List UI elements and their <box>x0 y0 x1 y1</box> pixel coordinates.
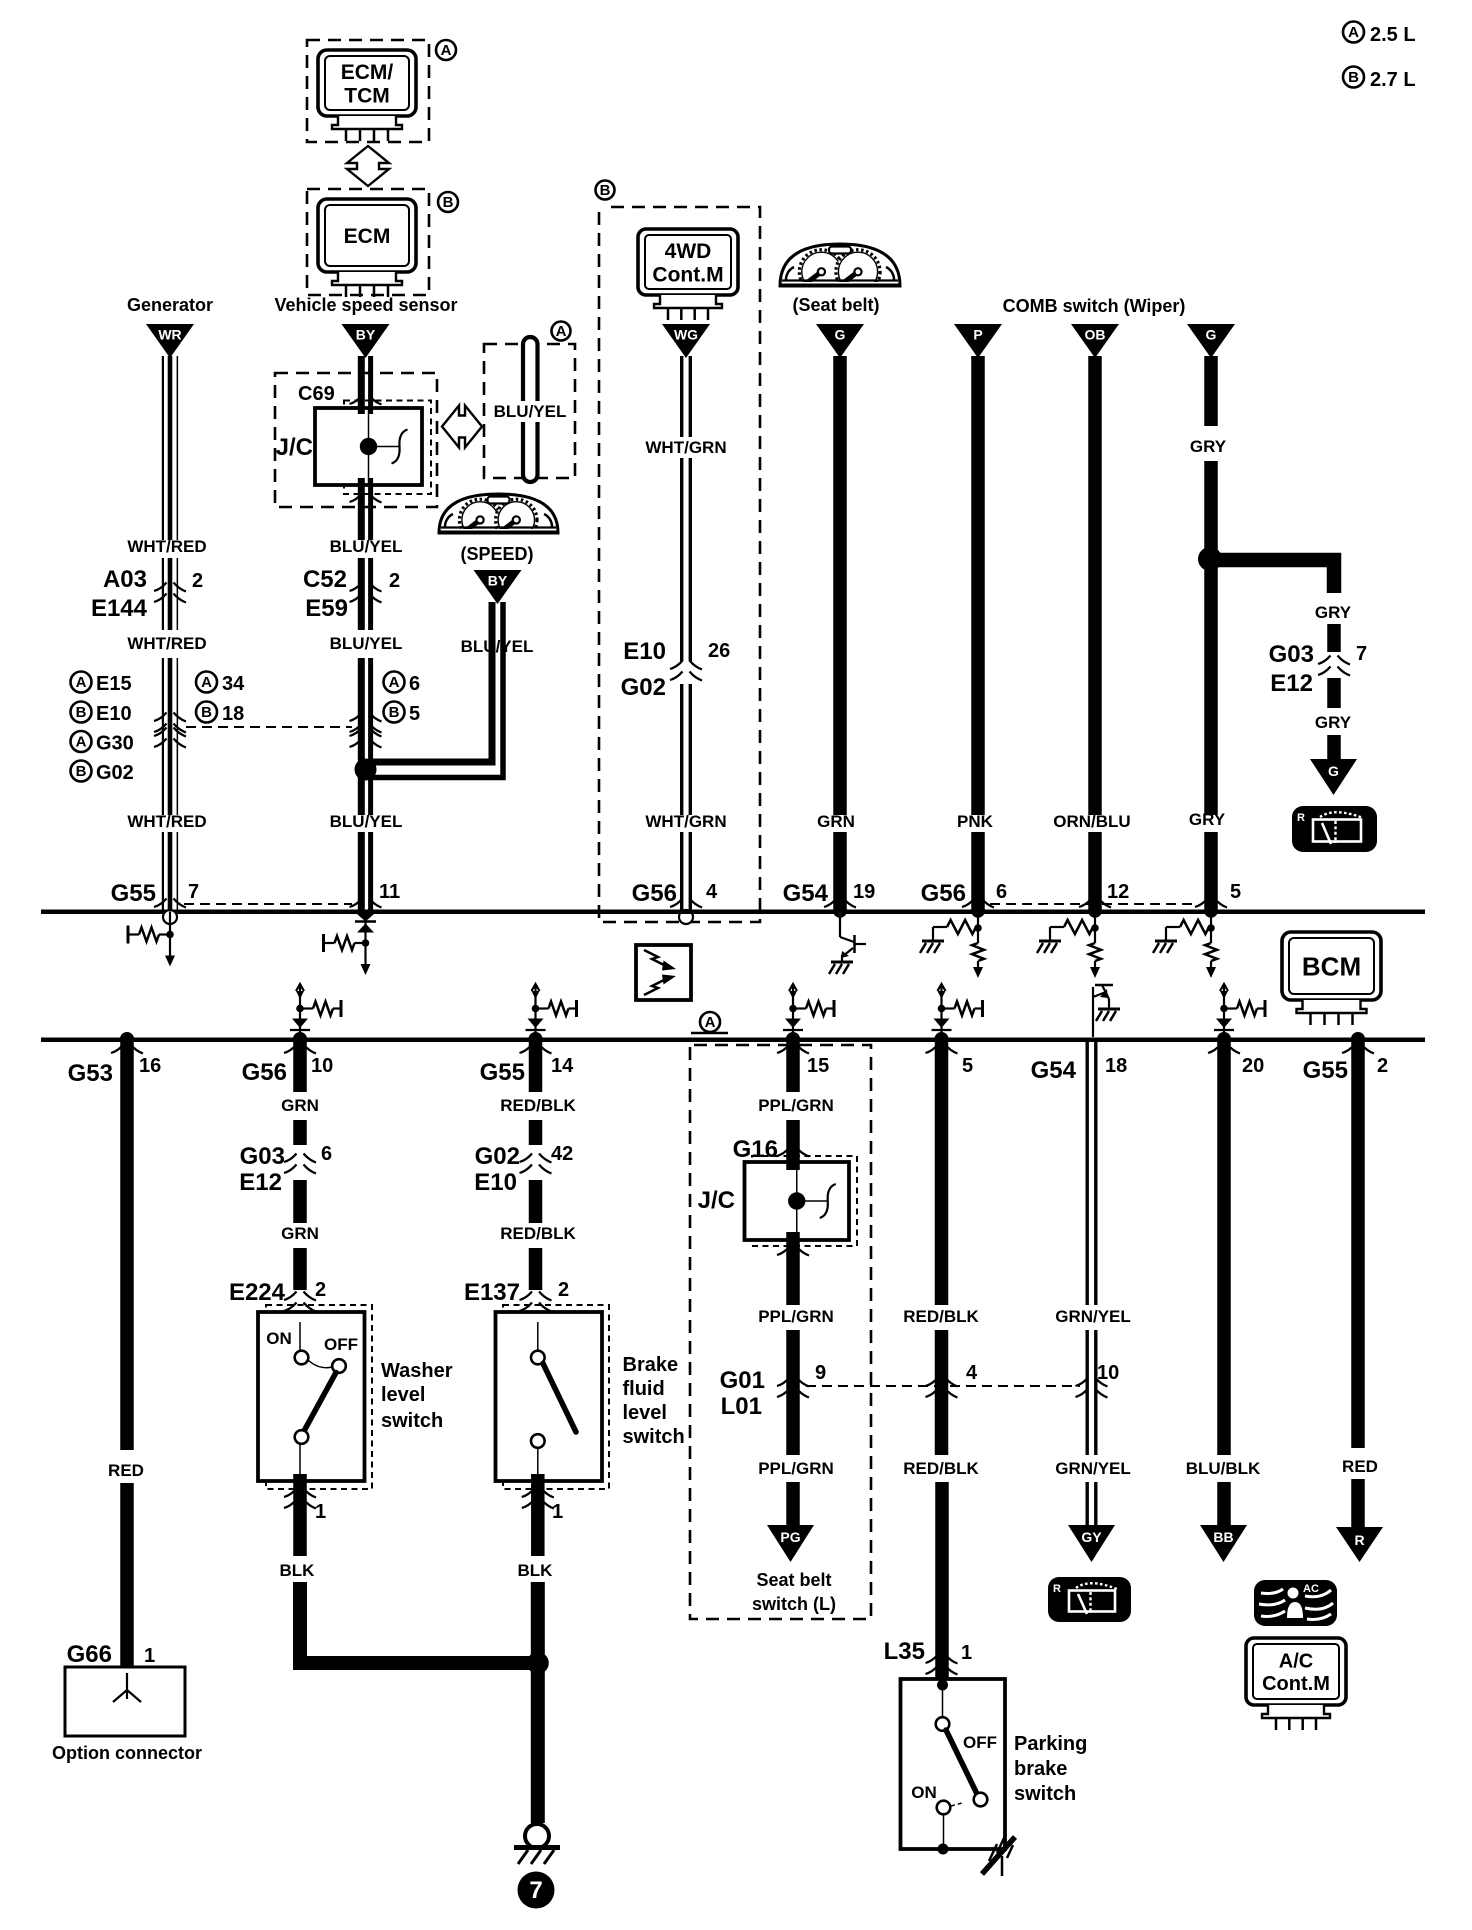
switch contact lower <box>295 1430 309 1444</box>
svg-text:RED/BLK: RED/BLK <box>903 1459 979 1478</box>
ground bus line 2 <box>41 1038 1425 1043</box>
svg-text:BLK: BLK <box>518 1561 554 1580</box>
brake fluid level switch box <box>496 1312 603 1481</box>
junction dot GRY branch <box>1198 547 1222 571</box>
svg-text:GRY: GRY <box>1189 810 1226 829</box>
svg-text:ON: ON <box>911 1783 937 1802</box>
connector circle at bus <box>679 910 693 924</box>
svg-text:E12: E12 <box>1270 670 1313 697</box>
source arrow G (COMB sw) <box>1187 324 1235 358</box>
svg-text:BLU/YEL: BLU/YEL <box>330 537 403 556</box>
svg-text:14: 14 <box>551 1055 574 1077</box>
seat belt warning cluster icon <box>780 244 900 294</box>
svg-text:A03: A03 <box>103 566 147 593</box>
wire GRN/YEL double thin <box>1086 1041 1089 1305</box>
switch contact bottom <box>531 1434 545 1448</box>
svg-text:G55: G55 <box>1303 1057 1348 1084</box>
ECM dashed box (2.7L) <box>307 189 429 295</box>
svg-text:Option connector: Option connector <box>52 1743 202 1763</box>
dashed link 9-4-10 <box>806 1385 1080 1387</box>
svg-text:WHT/GRN: WHT/GRN <box>645 438 726 457</box>
svg-text:G54: G54 <box>783 880 829 907</box>
svg-text:level: level <box>623 1402 667 1424</box>
svg-text:Vehicle speed sensor: Vehicle speed sensor <box>274 295 457 315</box>
diode/resistor above 5 <box>932 984 983 1037</box>
wire GRN <box>293 1041 307 1092</box>
svg-text:PPL/GRN: PPL/GRN <box>758 1096 834 1115</box>
junction dot 15 on bus 2 <box>786 1032 800 1046</box>
BCM pedestal <box>1297 1000 1367 1025</box>
svg-text:A: A <box>556 323 567 340</box>
svg-text:7: 7 <box>188 881 199 903</box>
wire BLU/BLK <box>1217 1041 1231 1455</box>
junction dot BLK <box>527 1652 549 1674</box>
svg-text:1: 1 <box>315 1501 326 1523</box>
svg-text:RED/BLK: RED/BLK <box>500 1096 576 1115</box>
source arrow WG (4WD) <box>662 324 710 358</box>
connector C69 exit <box>350 494 363 503</box>
svg-text:15: 15 <box>807 1055 829 1077</box>
svg-text:E10: E10 <box>474 1169 517 1196</box>
svg-text:GRN: GRN <box>817 812 855 831</box>
circled B <box>596 181 615 200</box>
svg-text:Washer: Washer <box>381 1360 453 1382</box>
svg-text:1: 1 <box>961 1642 972 1664</box>
connector G03/E12 pin 6 on GRN <box>284 1154 316 1174</box>
svg-text:G03: G03 <box>240 1143 285 1170</box>
svg-text:5: 5 <box>409 703 420 725</box>
svg-text:18: 18 <box>1105 1055 1127 1077</box>
parking brake switch box <box>901 1679 1006 1855</box>
svg-text:ORN/BLU: ORN/BLU <box>1053 812 1130 831</box>
svg-text:G56: G56 <box>632 880 677 907</box>
switch contact OFF <box>332 1359 346 1373</box>
svg-text:G53: G53 <box>68 1060 113 1087</box>
connector list E15/E10/G30/G02 <box>71 672 92 693</box>
circled A (ECM/TCM) <box>436 40 456 60</box>
svg-text:(SPEED): (SPEED) <box>460 544 533 564</box>
svg-text:Seat belt: Seat belt <box>756 1570 831 1590</box>
wire GRY solid with label gap <box>1204 356 1218 426</box>
destination arrow BB <box>1200 1525 1247 1562</box>
connector pin 4 on RED/BLK <box>926 1378 958 1398</box>
svg-text:PG: PG <box>780 1529 800 1545</box>
connector L35 pin 1 <box>926 1655 958 1675</box>
svg-text:A/C: A/C <box>1279 1651 1313 1673</box>
wire PNK solid <box>971 356 985 815</box>
bidirectional arrow between ECM/TCM and ECM <box>347 146 389 186</box>
svg-text:WHT/RED: WHT/RED <box>127 634 206 653</box>
connector G30/G02 on WHT/RED <box>154 728 186 748</box>
wire RED <box>120 1041 134 1450</box>
washer level switch box <box>258 1312 365 1481</box>
source arrow BY (SPEED) <box>474 570 522 604</box>
connector C52/E59 pin 2 on BLU/YEL <box>350 583 382 603</box>
junction dot G56-10 on bus 2 <box>293 1032 307 1046</box>
svg-text:BLU/BLK: BLU/BLK <box>1186 1459 1261 1478</box>
bus2 joint 20 <box>1208 1045 1221 1054</box>
svg-text:J/C: J/C <box>276 434 313 461</box>
washer level switch box (B dashed) <box>266 1305 372 1489</box>
svg-text:4WD: 4WD <box>665 240 712 263</box>
BLU/YEL wire capsule <box>523 337 538 482</box>
dashed link G55-7 to 11 <box>184 903 352 905</box>
diode/resistor above 15 <box>783 984 834 1037</box>
svg-text:GRN: GRN <box>281 1096 319 1115</box>
bus joint G56-6 <box>962 899 975 908</box>
svg-text:G55: G55 <box>111 880 156 907</box>
switch blade <box>304 1373 336 1432</box>
4WD control module <box>638 229 738 295</box>
svg-text:(Seat belt): (Seat belt) <box>792 295 879 315</box>
bus2 joint G53-16 <box>111 1045 124 1054</box>
svg-text:level: level <box>381 1384 425 1406</box>
svg-text:PPL/GRN: PPL/GRN <box>758 1459 834 1478</box>
destination arrow R <box>1336 1527 1383 1562</box>
connector A6/B5 lower on BLU/YEL <box>350 728 382 748</box>
wire GRN solid <box>833 356 847 815</box>
svg-text:WHT/RED: WHT/RED <box>127 812 206 831</box>
svg-text:BLU/YEL: BLU/YEL <box>330 812 403 831</box>
resistor network below 12 <box>1037 911 1101 978</box>
wire ORN/BLU solid <box>1088 356 1102 815</box>
svg-text:brake: brake <box>1014 1758 1067 1780</box>
bus joint 12 <box>1079 899 1092 908</box>
svg-text:A: A <box>441 42 452 59</box>
connector G16 exit <box>777 1247 790 1256</box>
diode/resistor above G55-14 <box>526 984 577 1037</box>
destination arrow PG <box>767 1525 814 1562</box>
svg-text:6: 6 <box>996 881 1007 903</box>
svg-text:4: 4 <box>706 881 718 903</box>
svg-text:ECM/: ECM/ <box>341 61 394 84</box>
svg-text:6: 6 <box>409 673 420 695</box>
diode/resistor above G56-10 <box>290 984 341 1037</box>
svg-text:A: A <box>1348 24 1359 41</box>
svg-text:AC: AC <box>1303 1583 1319 1595</box>
rear wiper indicator icon <box>1292 806 1377 852</box>
svg-text:TCM: TCM <box>344 84 390 107</box>
svg-text:2.5 L: 2.5 L <box>1370 24 1416 46</box>
svg-text:10: 10 <box>311 1055 333 1077</box>
wire BLU/YEL (double) <box>358 356 365 408</box>
svg-text:BLU/YEL: BLU/YEL <box>461 637 534 656</box>
svg-text:switch: switch <box>623 1426 685 1448</box>
junction dot speed branch <box>355 759 377 781</box>
wire RED/BLK <box>529 1041 543 1092</box>
junction dot G55-14 on bus 2 <box>529 1032 543 1046</box>
junction connector G16 J/C <box>745 1162 850 1240</box>
svg-text:E144: E144 <box>91 595 148 622</box>
circled A <box>552 322 571 341</box>
wire BLK elbow to junction <box>300 1582 530 1663</box>
legend A 2.5L <box>1343 22 1364 43</box>
svg-text:E10: E10 <box>96 703 132 725</box>
junction connector C69 J/C <box>315 408 422 485</box>
junction dot 20 on bus 2 <box>1217 1032 1231 1046</box>
connector E10/G02 pin 26 on WHT/GRN <box>670 661 702 681</box>
bus2 joint G55-14 <box>520 1045 533 1054</box>
bus2 joint 5 <box>926 1045 939 1054</box>
svg-text:Brake: Brake <box>623 1354 679 1376</box>
svg-text:B: B <box>76 763 87 780</box>
svg-text:OFF: OFF <box>963 1733 997 1752</box>
connector G16 entry <box>777 1148 790 1157</box>
svg-text:G66: G66 <box>67 1641 112 1668</box>
svg-text:B: B <box>201 704 212 721</box>
source arrow BY (VSS) <box>342 324 390 358</box>
svg-text:2: 2 <box>192 570 203 592</box>
svg-text:G02: G02 <box>96 762 134 784</box>
switch contact blade end <box>974 1793 988 1807</box>
connector circle G55-7 <box>163 910 177 924</box>
4WD Cont.M pedestal <box>654 295 722 320</box>
svg-text:GRY: GRY <box>1315 713 1352 732</box>
ground reference 7 <box>518 1872 555 1909</box>
svg-text:Generator: Generator <box>127 295 213 315</box>
svg-text:G: G <box>835 327 846 343</box>
svg-text:B: B <box>389 704 400 721</box>
svg-text:L35: L35 <box>884 1638 925 1665</box>
svg-text:BLK: BLK <box>280 1561 316 1580</box>
svg-text:COMB switch (Wiper): COMB switch (Wiper) <box>1003 296 1186 316</box>
svg-text:7: 7 <box>529 1877 542 1904</box>
svg-text:2: 2 <box>389 570 400 592</box>
destination arrow GY <box>1068 1525 1115 1562</box>
bus joint G54-19 <box>824 899 837 908</box>
pins A6/B5 <box>384 672 405 693</box>
svg-text:26: 26 <box>708 640 730 662</box>
bidirectional arrow C69/capsule <box>442 406 482 448</box>
svg-text:Parking: Parking <box>1014 1733 1087 1755</box>
svg-text:L01: L01 <box>721 1393 762 1420</box>
svg-text:B: B <box>1348 69 1359 86</box>
svg-text:B: B <box>600 182 611 199</box>
svg-text:switch: switch <box>381 1410 443 1432</box>
brake fluid level switch box (B dashed) <box>503 1305 609 1489</box>
switch blade <box>543 1364 576 1433</box>
source arrow P (COMB sw) <box>954 324 1002 358</box>
ECM pedestal pins <box>332 272 402 297</box>
A/C Cont.M pedestal <box>1262 1705 1330 1730</box>
svg-text:6: 6 <box>321 1143 332 1165</box>
svg-text:G: G <box>1328 763 1339 779</box>
svg-text:RED/BLK: RED/BLK <box>903 1307 979 1326</box>
svg-text:E137: E137 <box>464 1279 520 1306</box>
svg-text:G02: G02 <box>621 674 666 701</box>
svg-text:C52: C52 <box>303 566 347 593</box>
svg-text:G01: G01 <box>720 1367 765 1394</box>
junction dot G55-2 on bus 2 <box>1351 1032 1365 1046</box>
svg-text:switch: switch <box>1014 1783 1076 1805</box>
svg-text:R: R <box>1297 812 1305 824</box>
switch contact ON <box>937 1801 951 1815</box>
svg-text:7: 7 <box>1356 643 1367 665</box>
dashed link G56-6 to 5 <box>990 903 1198 905</box>
wire WHT/GRN double thin <box>680 356 683 437</box>
svg-text:E10: E10 <box>623 638 666 665</box>
svg-text:P: P <box>973 327 982 343</box>
svg-text:GRY: GRY <box>1315 603 1352 622</box>
rear wiper indicator icon 2 <box>1048 1577 1131 1622</box>
bus2 joint G56-10 <box>284 1045 297 1054</box>
svg-text:J/C: J/C <box>698 1187 735 1214</box>
svg-text:WR: WR <box>158 327 181 343</box>
option connector box <box>65 1667 185 1736</box>
svg-text:RED: RED <box>108 1461 144 1480</box>
svg-text:G56: G56 <box>242 1059 287 1086</box>
ground symbol <box>514 1824 560 1864</box>
svg-text:G56: G56 <box>921 880 966 907</box>
connector C69 entry <box>350 396 363 405</box>
svg-text:WHT/RED: WHT/RED <box>127 537 206 556</box>
svg-text:GRN: GRN <box>281 1224 319 1243</box>
svg-text:E59: E59 <box>305 595 348 622</box>
bus2 joint 15 <box>777 1045 790 1054</box>
svg-text:WHT/GRN: WHT/GRN <box>645 812 726 831</box>
bus joint G56-4 <box>670 899 683 908</box>
svg-text:G30: G30 <box>96 733 134 755</box>
svg-text:A: A <box>201 674 212 691</box>
legend B 2.7L <box>1343 67 1364 88</box>
destination arrow G <box>1310 759 1357 795</box>
circled A (seat belt switch region) <box>700 1012 720 1032</box>
junction dot 5 on bus 2 <box>935 1032 949 1046</box>
svg-text:G54: G54 <box>1031 1057 1077 1084</box>
svg-text:G02: G02 <box>475 1143 520 1170</box>
svg-text:A: A <box>76 674 87 691</box>
svg-text:1: 1 <box>552 1501 563 1523</box>
resistor network below G56-6 <box>920 911 984 978</box>
wire RED <box>1351 1041 1365 1448</box>
svg-text:ECM: ECM <box>344 225 391 248</box>
bus2 joint G55-2 <box>1342 1045 1355 1054</box>
transistor above G54-18 <box>1093 985 1120 1037</box>
connector pin 10 on GRN/YEL <box>1076 1378 1108 1398</box>
ECM/TCM dashed box (2.5L) <box>307 40 429 142</box>
svg-text:1: 1 <box>144 1645 155 1667</box>
svg-text:10: 10 <box>1097 1362 1119 1384</box>
svg-text:PNK: PNK <box>957 812 994 831</box>
svg-text:GY: GY <box>1081 1529 1102 1545</box>
junction connector C69 dashed region <box>275 373 437 507</box>
svg-text:42: 42 <box>551 1143 573 1165</box>
connector G02/E10 pin 42 on RED/BLK <box>520 1154 552 1174</box>
wire BLU/YEL speed L-branch <box>370 602 492 762</box>
svg-text:G16: G16 <box>733 1136 778 1163</box>
svg-text:2: 2 <box>1377 1055 1388 1077</box>
svg-text:BCM: BCM <box>1302 951 1361 981</box>
GRY branch wire to right <box>1210 560 1334 593</box>
pins A34/B18 <box>196 672 217 693</box>
svg-text:G55: G55 <box>480 1059 525 1086</box>
svg-text:E12: E12 <box>239 1169 282 1196</box>
svg-text:34: 34 <box>222 673 245 695</box>
bus joint 5 <box>1195 899 1208 908</box>
wire BLK to ground <box>531 1582 545 1823</box>
bus joint G55-7 <box>154 899 167 908</box>
diode at 11 <box>355 914 376 933</box>
svg-text:BLU/YEL: BLU/YEL <box>494 402 567 421</box>
connector E224 pin 2 <box>284 1292 316 1312</box>
svg-text:B: B <box>443 194 454 211</box>
bus joint 11 <box>350 899 363 908</box>
connector A6/B5 upper on BLU/YEL <box>350 713 382 733</box>
BCM module <box>1282 932 1381 1000</box>
svg-text:19: 19 <box>853 881 875 903</box>
connector E224 pin 1 <box>284 1489 316 1509</box>
svg-text:switch (L): switch (L) <box>752 1594 836 1614</box>
svg-text:Cont.M: Cont.M <box>1262 1673 1330 1695</box>
svg-text:2: 2 <box>315 1279 326 1301</box>
svg-text:G: G <box>1206 327 1217 343</box>
svg-text:C69: C69 <box>298 383 335 405</box>
svg-text:R: R <box>1354 1532 1364 1548</box>
svg-text:GRY: GRY <box>1190 437 1227 456</box>
svg-text:PPL/GRN: PPL/GRN <box>758 1307 834 1326</box>
ECM/TCM pedestal pins <box>332 116 402 141</box>
svg-text:BB: BB <box>1213 1529 1233 1545</box>
ground bus line 1 <box>41 910 1425 915</box>
switch contact top <box>936 1717 950 1731</box>
resistor-to-ground below 11 <box>324 920 371 975</box>
svg-text:A: A <box>705 1014 716 1031</box>
source arrow WR (Generator) <box>146 324 194 358</box>
svg-text:OFF: OFF <box>324 1335 358 1354</box>
svg-text:9: 9 <box>815 1362 826 1384</box>
wire WHT/RED generator (triple line) <box>162 356 164 540</box>
svg-text:RED/BLK: RED/BLK <box>500 1224 576 1243</box>
J/C box variant B dashed <box>344 401 431 495</box>
svg-text:5: 5 <box>962 1055 973 1077</box>
connector E137 pin 2 <box>520 1292 552 1312</box>
dashed region A boundary <box>690 1045 871 1619</box>
chassis ground at parking brake <box>982 1836 1015 1876</box>
connector A03/E144 pin 2 on WHT/RED <box>154 583 186 603</box>
svg-text:2: 2 <box>558 1279 569 1301</box>
svg-text:E224: E224 <box>229 1279 286 1306</box>
svg-text:GRN/YEL: GRN/YEL <box>1055 1459 1131 1478</box>
svg-text:BLU/YEL: BLU/YEL <box>330 634 403 653</box>
dashed box BLU/YEL segment (2.5L) <box>484 344 575 478</box>
svg-text:18: 18 <box>222 703 244 725</box>
transistor to ground below G54-19 <box>829 911 866 974</box>
svg-text:B: B <box>76 704 87 721</box>
svg-text:A: A <box>389 674 400 691</box>
circled B (ECM) <box>438 192 458 212</box>
svg-text:R: R <box>1053 1583 1061 1595</box>
source arrow OB (COMB sw) <box>1071 324 1119 358</box>
diode/resistor above 20 <box>1214 984 1265 1037</box>
connector G03/E12 pin 7 on GRY <box>1318 656 1350 676</box>
svg-text:12: 12 <box>1107 881 1129 903</box>
svg-text:16: 16 <box>139 1055 161 1077</box>
switch contact ON <box>295 1351 309 1365</box>
svg-text:20: 20 <box>1242 1055 1264 1077</box>
connector G01/L01 pin 9 on PPL/GRN <box>777 1378 809 1398</box>
wire PPL/GRN <box>786 1041 800 1092</box>
noise suppressor icon <box>636 945 691 1000</box>
svg-text:WG: WG <box>674 327 698 343</box>
svg-text:ON: ON <box>266 1329 292 1348</box>
svg-text:A: A <box>76 734 87 751</box>
ECM/TCM module U-A <box>318 50 416 116</box>
dashed link between connectors <box>186 726 352 728</box>
svg-text:RED: RED <box>1342 1457 1378 1476</box>
svg-text:fluid: fluid <box>623 1378 665 1400</box>
A/C control module <box>1246 1638 1346 1705</box>
switch contact top <box>531 1351 545 1365</box>
